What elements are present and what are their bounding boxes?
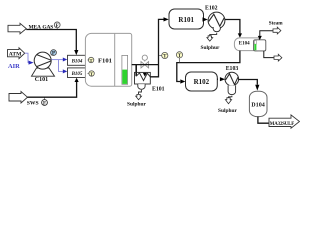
- wire D104 to MA32SULF: [258, 117, 269, 124]
- wire valve into E101: [143, 73, 147, 77]
- svg-text:E103: E103: [226, 66, 239, 72]
- svg-text:F101: F101: [98, 58, 112, 65]
- compressor C101: [32, 52, 55, 76]
- valve (E101 inlet): [141, 55, 149, 68]
- svg-text:F: F: [56, 24, 59, 29]
- wire E103 to D104: [239, 80, 258, 85]
- input arrow SWS: [9, 92, 28, 104]
- drum D104: [249, 91, 267, 116]
- svg-text:Sulphur: Sulphur: [201, 45, 220, 51]
- svg-text:AIR: AIR: [8, 63, 20, 70]
- indicator T (E104 liquid): [176, 52, 182, 63]
- svg-text:Sulphur: Sulphur: [127, 102, 146, 108]
- svg-text:D104: D104: [251, 102, 265, 108]
- heater B105: [68, 68, 87, 78]
- indicator T (B104 outlet): [88, 57, 94, 63]
- svg-text:E102: E102: [205, 6, 218, 12]
- wire E102 to E104: [225, 20, 240, 34]
- output arrow sulphur E101: [136, 94, 142, 99]
- svg-text:B105: B105: [71, 72, 83, 77]
- svg-text:B104: B104: [71, 60, 83, 65]
- heater E102: [208, 12, 225, 29]
- heater B104: [68, 55, 87, 65]
- svg-text:Sulphur: Sulphur: [218, 108, 237, 114]
- wire AIR to C101: [25, 53, 29, 62]
- wire MEA GAS to B104: [26, 30, 76, 51]
- wire steam into boot: [260, 31, 273, 36]
- reactor R101: [169, 9, 204, 29]
- svg-text:Steam: Steam: [269, 21, 284, 27]
- svg-text:E101: E101: [152, 86, 165, 92]
- vessel F101: [85, 33, 131, 86]
- output arrow MA32SULF: [269, 115, 300, 128]
- heater E103: [225, 72, 239, 86]
- svg-text:T: T: [90, 72, 93, 77]
- input arrow ATM: [8, 48, 25, 59]
- output arrow (E104 vapour): [274, 54, 282, 61]
- svg-text:R101: R101: [178, 16, 194, 24]
- indicator P (compressor): [51, 50, 57, 57]
- svg-text:MA32SULF: MA32SULF: [270, 122, 295, 127]
- sulfur boot E103: [228, 85, 236, 94]
- boot E104: [254, 40, 266, 51]
- input arrow MEA GAS: [8, 23, 26, 34]
- svg-text:F: F: [43, 102, 46, 107]
- wire R101 to E102: [203, 19, 205, 21]
- wire SWS to B105: [28, 82, 77, 97]
- wire boot outlet: [264, 51, 274, 58]
- output arrow Steam: [273, 27, 281, 34]
- sulfur boot E101: [138, 84, 145, 89]
- svg-text:P: P: [52, 52, 55, 57]
- svg-text:C101: C101: [35, 77, 48, 83]
- wire F101 to valve to riser: [132, 64, 159, 66]
- indicator T (B105 outlet): [88, 71, 95, 77]
- svg-text:E104: E104: [239, 42, 250, 47]
- wire into E101 zigzag feed: [135, 65, 137, 76]
- wire E101 to R101 riser: [150, 19, 163, 76]
- output arrow sulphur E103: [225, 98, 231, 104]
- svg-text:R102: R102: [194, 78, 210, 86]
- sulfur boot E102: [213, 27, 220, 32]
- reactor R102: [186, 72, 218, 91]
- indicator F (MEA stream): [54, 22, 60, 30]
- wire E104 liquid to R102: [177, 51, 240, 82]
- indicator T (riser): [159, 52, 168, 59]
- exchanger E101: [135, 72, 151, 84]
- wire C101 to B104: [51, 59, 63, 61]
- svg-text:ATM: ATM: [9, 51, 22, 57]
- svg-text:T: T: [90, 58, 93, 63]
- svg-text:SWS: SWS: [27, 101, 39, 107]
- flash drum E104: [234, 38, 259, 51]
- wire R102 to E103: [216, 78, 219, 80]
- indicator F (SWS stream): [42, 97, 48, 106]
- wire C101 to B105: [59, 60, 63, 72]
- output arrow sulphur E102: [207, 36, 213, 41]
- level gauge F101: [122, 55, 128, 84]
